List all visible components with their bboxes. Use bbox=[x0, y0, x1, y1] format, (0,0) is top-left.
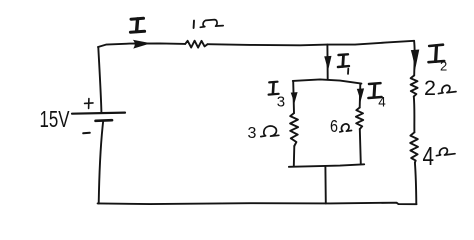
omega of 3ohm bbox=[261, 126, 279, 137]
svg-text:2: 2 bbox=[440, 59, 447, 74]
wire bottom horizontal bbox=[98, 203, 417, 205]
resistor R2 2ohm zigzag bbox=[411, 75, 418, 96]
wire right parallel branch lower bbox=[360, 129, 361, 164]
label I2 bbox=[429, 45, 443, 46]
svg-text:3: 3 bbox=[248, 125, 257, 142]
svg-text:15V: 15V bbox=[40, 106, 70, 132]
svg-text:3: 3 bbox=[277, 93, 285, 110]
arrow current I4 down bbox=[357, 88, 364, 101]
battery minus sign bbox=[83, 132, 90, 135]
wire between 2ohm and 4ohm bbox=[413, 96, 416, 132]
omega of 4ohm bbox=[436, 148, 455, 156]
svg-text:4: 4 bbox=[378, 94, 386, 109]
wire top-left vertical bbox=[98, 47, 101, 112]
wire top horizontal right of resistor bbox=[208, 41, 415, 46]
arrow current I right bbox=[133, 40, 151, 49]
omega of 6ohm bbox=[340, 124, 352, 132]
wire right parallel branch upper bbox=[359, 84, 362, 108]
wire left parallel branch upper bbox=[292, 81, 295, 113]
battery short plate bbox=[96, 119, 112, 122]
wire middle stub to bottom bbox=[324, 167, 326, 203]
resistor R3 4ohm zigzag bbox=[410, 132, 418, 162]
wire left vertical below battery bbox=[99, 121, 104, 203]
wire parallel-bottom bar bbox=[289, 164, 364, 167]
arrow current I1 down bbox=[324, 56, 331, 71]
arrow current I3 down bbox=[291, 92, 298, 104]
battery plus sign bbox=[85, 99, 93, 109]
svg-text:2: 2 bbox=[424, 77, 436, 100]
resistor R4 3ohm zigzag bbox=[290, 113, 298, 146]
label I4 bbox=[369, 82, 381, 85]
wire middle branch from top bbox=[326, 45, 328, 80]
label I main bbox=[131, 17, 144, 21]
svg-text:6: 6 bbox=[330, 116, 338, 136]
svg-text:4: 4 bbox=[423, 141, 435, 171]
label I3 bbox=[269, 81, 277, 84]
wire right vertical bottom bbox=[415, 163, 416, 204]
wire right vertical with 2ohm and 4ohm bbox=[413, 41, 416, 76]
omega of 1ohm bbox=[200, 20, 223, 28]
battery long plate bbox=[72, 113, 125, 114]
omega of 2ohm bbox=[438, 85, 456, 93]
wire left parallel branch lower bbox=[293, 146, 296, 166]
label 1 of 1ohm bbox=[193, 21, 195, 28]
resistor R5 6ohm zigzag bbox=[356, 108, 363, 130]
wire parallel-top bar bbox=[293, 79, 362, 83]
resistor R1 1ohm zigzag bbox=[185, 41, 207, 48]
label I1 bbox=[339, 53, 349, 56]
arrow current I2 down bbox=[411, 50, 420, 70]
wire top horizontal left of resistor bbox=[98, 43, 185, 47]
